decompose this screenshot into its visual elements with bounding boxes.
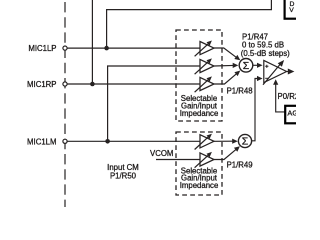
plus mark PGA input [265,65,268,68]
block digital volume box [285,0,301,19]
svg-text:(0.5-dB steps): (0.5-dB steps) [241,49,290,58]
svg-text:Impedance: Impedance [180,181,219,190]
terminal MIC1LM [63,139,67,143]
wire AGC control into PGA [273,79,284,112]
node junction dot on MIC1RP [90,82,95,87]
chip boundary dashed line [64,0,66,207]
wire A4 output into summer S2 [214,139,238,144]
node junction dot on MIC1LM [105,139,110,144]
wire A2 output into summer [214,63,238,68]
svg-text:P1/R48: P1/R48 [227,87,253,96]
svg-text:P0/R2: P0/R2 [278,92,297,101]
wire MIC1LP riser and top routing to top edge [107,0,272,48]
summer S1 [239,59,253,73]
wire VCOM [156,159,200,161]
terminal MIC1LP [63,46,67,50]
node junction dot on MIC1LP [104,46,109,51]
summer S2 [238,134,251,147]
svg-text:MIC1LM: MIC1LM [27,138,56,147]
block AGC box [285,106,299,124]
wire MIC1LP horizontal [67,47,200,49]
wire A3 output into summer [214,71,240,85]
wire S2 output up to PGA lower input [252,76,263,141]
svg-text:Σ: Σ [242,136,249,148]
svg-text:MIC1LP: MIC1LP [28,44,56,53]
wire PGA output arrow [287,69,295,75]
amplifier A1 MIC1LP [195,41,214,57]
amplifier A3 MIC1RP [195,76,214,92]
dashed box selectable gain lower [176,132,222,195]
wire MIC1LM riser to middle amp [108,66,200,141]
wire A1 output into summer [214,48,240,60]
svg-text:AG: AG [287,109,296,118]
op-amp PGA U1 [263,60,287,85]
wire MIC1LM horizontal [67,140,200,142]
amplifier A4 MIC1LM lower box [195,134,214,150]
minus mark PGA input [265,77,268,79]
wire MIC1RP horizontal [67,83,200,85]
wire MIC1RP riser to top edge [91,0,93,84]
svg-text:V: V [289,7,294,14]
dashed box selectable gain upper [176,30,222,121]
svg-text:Impedance: Impedance [180,109,219,118]
wire A5 output into summer S2 [214,146,240,159]
svg-text:P1/R49: P1/R49 [227,161,253,170]
svg-text:Σ: Σ [243,60,250,72]
svg-text:MIC1RP: MIC1RP [27,80,56,89]
wire S1 output into PGA [253,63,263,68]
amplifier A5 VCOM lower box [195,152,214,168]
svg-text:P1/R50: P1/R50 [110,171,137,180]
terminal MIC1RP [63,82,67,86]
amplifier A2 middle [195,58,214,74]
svg-text:VCOM: VCOM [150,149,173,158]
